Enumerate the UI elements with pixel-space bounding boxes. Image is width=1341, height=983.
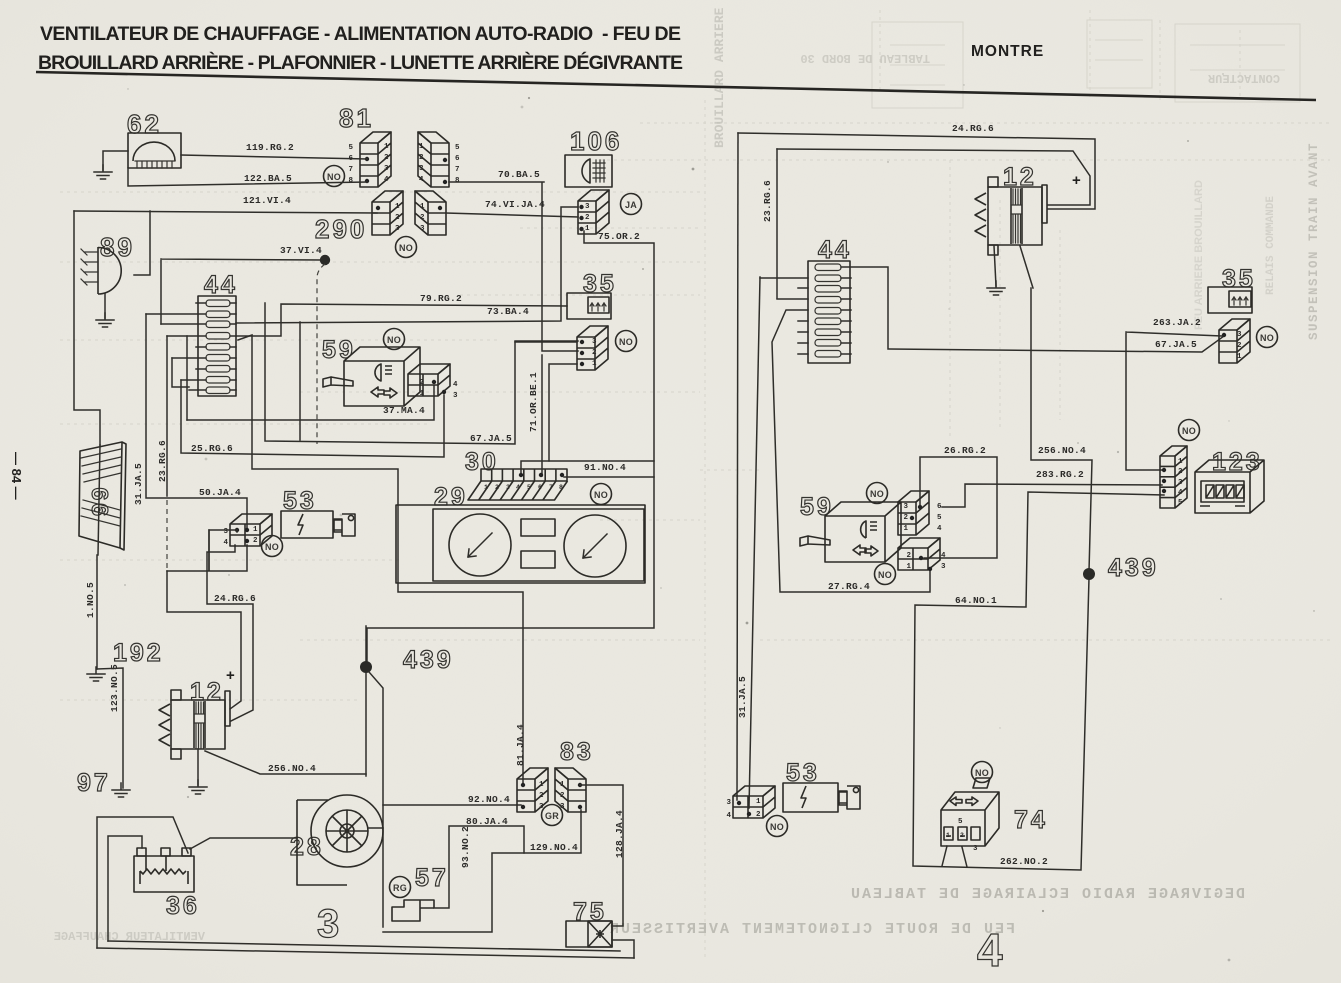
svg-text:79.RG.2: 79.RG.2	[420, 293, 462, 304]
svg-text:91.NO.4: 91.NO.4	[584, 462, 626, 473]
svg-text:2: 2	[585, 214, 590, 222]
svg-text:2: 2	[539, 792, 544, 800]
svg-text:64.NO.1: 64.NO.1	[955, 595, 997, 606]
svg-text:6: 6	[538, 484, 542, 491]
svg-text:1: 1	[253, 526, 258, 534]
svg-text:29: 29	[434, 483, 468, 511]
svg-text:NO: NO	[1260, 333, 1274, 343]
svg-text:80.JA.4: 80.JA.4	[466, 816, 508, 827]
svg-text:62: 62	[127, 109, 162, 139]
svg-text:23.RG.6: 23.RG.6	[762, 180, 773, 222]
svg-text:1: 1	[1178, 458, 1183, 466]
svg-text:1: 1	[419, 143, 424, 151]
svg-text:123.NO.5: 123.NO.5	[109, 664, 120, 712]
svg-text:24.RG.6: 24.RG.6	[952, 123, 994, 134]
svg-text:192: 192	[113, 639, 164, 667]
svg-text:3: 3	[1237, 331, 1242, 339]
svg-text:2: 2	[384, 154, 389, 162]
svg-text:2: 2	[903, 514, 908, 522]
svg-text:4: 4	[516, 484, 520, 491]
svg-text:97: 97	[77, 769, 111, 797]
svg-text:3: 3	[317, 902, 342, 946]
svg-text:1: 1	[384, 143, 389, 151]
svg-text:4: 4	[384, 176, 389, 184]
svg-text:8: 8	[455, 177, 460, 185]
svg-text:4: 4	[1178, 489, 1183, 497]
svg-text:FEU ARRIERE BROUILLARD: FEU ARRIERE BROUILLARD	[1193, 180, 1205, 330]
svg-text:121.VI.4: 121.VI.4	[243, 195, 291, 206]
svg-text:5: 5	[455, 144, 460, 152]
svg-text:4: 4	[941, 552, 946, 560]
svg-text:71.OR.BE.1: 71.OR.BE.1	[528, 372, 539, 432]
svg-text:122.BA.5: 122.BA.5	[244, 173, 292, 184]
svg-text:2: 2	[960, 832, 964, 839]
svg-text:1: 1	[903, 525, 908, 533]
svg-text:2: 2	[495, 484, 499, 491]
svg-text:TABLEAU DE BORD 30: TABLEAU DE BORD 30	[800, 51, 930, 65]
svg-text:57: 57	[415, 864, 449, 892]
svg-text:23.RG.6: 23.RG.6	[157, 440, 168, 482]
svg-text:1: 1	[906, 563, 911, 571]
svg-text:290: 290	[315, 214, 367, 244]
svg-text:1.NO.5: 1.NO.5	[85, 582, 96, 618]
svg-text:44: 44	[818, 236, 852, 264]
svg-text:NO: NO	[387, 335, 401, 345]
svg-text:256.NO.4: 256.NO.4	[268, 763, 316, 774]
svg-text:SUSPENSION TRAIN AVANT: SUSPENSION TRAIN AVANT	[1307, 142, 1321, 340]
svg-text:1: 1	[560, 781, 565, 789]
svg-text:67.JA.5: 67.JA.5	[470, 433, 512, 444]
svg-text:2: 2	[395, 214, 400, 222]
svg-text:5: 5	[348, 144, 353, 152]
svg-text:RELAIS COMMANDE: RELAIS COMMANDE	[1265, 196, 1277, 295]
svg-text:1: 1	[419, 390, 424, 398]
svg-text:92.NO.4: 92.NO.4	[468, 794, 510, 805]
svg-text:1: 1	[585, 225, 590, 233]
svg-text:3: 3	[419, 165, 424, 173]
svg-text:+: +	[226, 667, 235, 684]
svg-text:NO: NO	[265, 542, 279, 552]
svg-text:25.RG.6: 25.RG.6	[191, 443, 233, 454]
svg-text:1: 1	[484, 484, 488, 491]
svg-text:74: 74	[1014, 806, 1048, 834]
svg-text:3: 3	[395, 225, 400, 233]
svg-text:NO: NO	[594, 490, 608, 500]
svg-text:NO: NO	[975, 768, 989, 778]
svg-text:75.OR.2: 75.OR.2	[598, 231, 640, 242]
svg-text:28: 28	[290, 833, 324, 861]
svg-text:119.RG.2: 119.RG.2	[246, 142, 294, 153]
svg-text:FEU DE ROUTE CLIGNOTEMENT AVE: FEU DE ROUTE CLIGNOTEMENT AVERTISSEUR	[608, 921, 1015, 938]
svg-text:2: 2	[419, 154, 424, 162]
svg-text:2: 2	[420, 214, 425, 222]
svg-text:3: 3	[506, 484, 510, 491]
svg-text:NO: NO	[327, 172, 341, 182]
svg-text:3: 3	[585, 203, 590, 211]
svg-text:5: 5	[958, 818, 963, 826]
svg-text:3: 3	[592, 338, 597, 346]
svg-text:1: 1	[592, 360, 597, 368]
svg-text:3: 3	[726, 799, 731, 807]
svg-text:1: 1	[1237, 353, 1242, 361]
svg-text:93.NO.2: 93.NO.2	[460, 826, 471, 868]
svg-text:MONTRE: MONTRE	[971, 43, 1044, 60]
svg-text:283.RG.2: 283.RG.2	[1036, 469, 1084, 480]
svg-text:8: 8	[348, 177, 353, 185]
svg-text:NO: NO	[1182, 426, 1196, 436]
svg-text:1: 1	[946, 832, 950, 839]
svg-text:74.VI.JA.4: 74.VI.JA.4	[485, 199, 545, 210]
svg-text:3: 3	[223, 528, 228, 536]
svg-text:256.NO.4: 256.NO.4	[1038, 445, 1086, 456]
svg-text:50.JA.4: 50.JA.4	[199, 487, 241, 498]
svg-text:1: 1	[539, 781, 544, 789]
svg-text:129.NO.4: 129.NO.4	[530, 842, 578, 853]
svg-text:JA: JA	[625, 200, 637, 210]
svg-text:83: 83	[560, 738, 594, 766]
svg-text:262.NO.2: 262.NO.2	[1000, 856, 1048, 867]
svg-text:3: 3	[1178, 479, 1183, 487]
svg-text:3: 3	[384, 165, 389, 173]
svg-text:67.JA.5: 67.JA.5	[1155, 339, 1197, 350]
svg-text:— 84 —: — 84 —	[9, 452, 24, 500]
svg-text:RG: RG	[393, 883, 407, 893]
svg-text:3: 3	[941, 563, 946, 571]
svg-text:VENTILATEUR DE CHAUFFAGE - ALI: VENTILATEUR DE CHAUFFAGE - ALIMENTATION …	[40, 23, 681, 45]
svg-text:439: 439	[1108, 554, 1159, 582]
svg-text:439: 439	[403, 646, 454, 674]
svg-text:8: 8	[559, 484, 563, 491]
svg-text:263.JA.2: 263.JA.2	[1153, 317, 1201, 328]
svg-text:4: 4	[223, 539, 228, 547]
svg-text:3: 3	[453, 392, 458, 400]
svg-text:31.JA.5: 31.JA.5	[737, 676, 748, 718]
svg-text:5: 5	[1178, 499, 1183, 507]
svg-text:7: 7	[549, 484, 553, 491]
svg-text:2: 2	[253, 537, 258, 545]
svg-text:59: 59	[322, 336, 356, 364]
svg-text:NO: NO	[399, 243, 413, 253]
svg-text:NO: NO	[619, 337, 633, 347]
svg-text:3: 3	[903, 503, 908, 511]
svg-text:81: 81	[339, 103, 374, 133]
svg-text:1: 1	[756, 798, 761, 806]
svg-text:12: 12	[190, 678, 224, 706]
svg-text:5: 5	[937, 514, 942, 522]
svg-text:30: 30	[465, 448, 499, 476]
svg-text:35: 35	[1222, 265, 1256, 293]
svg-text:26.RG.2: 26.RG.2	[944, 445, 986, 456]
svg-text:2: 2	[1178, 468, 1183, 476]
svg-text:73.BA.4: 73.BA.4	[487, 306, 529, 317]
svg-text:3: 3	[420, 225, 425, 233]
svg-text:+: +	[1072, 172, 1081, 189]
svg-text:24.RG.6: 24.RG.6	[214, 593, 256, 604]
svg-text:37.VI.4: 37.VI.4	[280, 245, 322, 256]
svg-text:81.JA.4: 81.JA.4	[515, 724, 526, 766]
svg-text:1: 1	[420, 203, 425, 211]
svg-text:DEGIVRAGE RADIO ECLAIRAGE DE: DEGIVRAGE RADIO ECLAIRAGE DE TABLEAU	[849, 886, 1245, 903]
svg-text:6: 6	[455, 155, 460, 163]
svg-text:106: 106	[570, 126, 622, 156]
svg-text:36: 36	[166, 892, 200, 920]
svg-text:2: 2	[592, 349, 597, 357]
svg-text:37.MA.4: 37.MA.4	[383, 405, 425, 416]
svg-text:2: 2	[906, 552, 911, 560]
svg-text:4: 4	[977, 924, 1006, 976]
svg-text:BROUILLARD ARRIÈRE - PLAFONNIE: BROUILLARD ARRIÈRE - PLAFONNIER - LUNETT…	[38, 51, 683, 74]
svg-text:2: 2	[560, 792, 565, 800]
svg-text:2: 2	[756, 811, 761, 819]
svg-text:31.JA.5: 31.JA.5	[133, 463, 144, 505]
svg-text:1: 1	[395, 203, 400, 211]
svg-text:NO: NO	[770, 822, 784, 832]
svg-text:44: 44	[204, 271, 238, 299]
svg-text:BROUILLARD ARRIERE: BROUILLARD ARRIERE	[712, 7, 727, 148]
svg-text:CONTACTEUR: CONTACTEUR	[1207, 71, 1280, 85]
svg-text:NO: NO	[878, 570, 892, 580]
svg-text:GR: GR	[545, 811, 559, 821]
svg-text:99: 99	[87, 484, 113, 516]
svg-text:4: 4	[937, 525, 942, 533]
svg-text:NO: NO	[870, 489, 884, 499]
svg-text:3: 3	[973, 845, 978, 853]
svg-text:4: 4	[419, 176, 424, 184]
svg-text:70.BA.5: 70.BA.5	[498, 169, 540, 180]
svg-text:7: 7	[348, 166, 353, 174]
svg-text:27.RG.4: 27.RG.4	[828, 581, 870, 592]
svg-text:2: 2	[419, 379, 424, 387]
svg-text:7: 7	[455, 166, 460, 174]
svg-text:2: 2	[1237, 342, 1242, 350]
svg-text:4: 4	[726, 812, 731, 820]
svg-text:4: 4	[453, 381, 458, 389]
svg-text:5: 5	[527, 484, 531, 491]
